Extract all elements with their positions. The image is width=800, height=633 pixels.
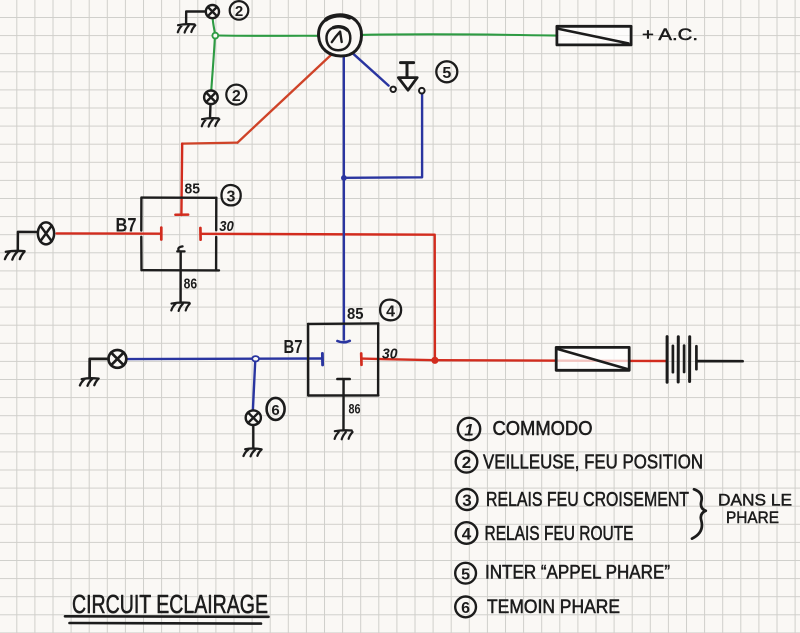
svg-text:VEILLEUSE, FEU POSITION: VEILLEUSE, FEU POSITION [483, 452, 703, 474]
wire blue commodo down to relay4 pin85 [343, 55, 346, 340]
title underline 2 [70, 622, 262, 625]
ground for lamp L4 [80, 378, 99, 386]
legend item 4 circled 4 [456, 522, 478, 544]
svg-text:CIRCUIT ECLAIRAGE: CIRCUIT ECLAIRAGE [72, 589, 268, 619]
wire green node to commodo [218, 34, 320, 36]
switch S5 right terminal [419, 88, 425, 94]
lamp veilleuse bottom (L2b) [204, 91, 218, 119]
wire blue switch branch [346, 94, 422, 178]
svg-text:B7: B7 [284, 337, 303, 357]
legend item 2 circled 2 [456, 451, 478, 473]
pin 85 bar relay3 [175, 213, 188, 216]
switch S5 stem [401, 63, 414, 78]
svg-text:85: 85 [347, 306, 364, 323]
wire red commodo diagonal [238, 55, 332, 143]
node blue junction dot [341, 175, 347, 181]
svg-text:PHARE: PHARE [726, 508, 779, 527]
svg-text:4: 4 [386, 303, 395, 320]
legend item 6 circled 6 [455, 597, 476, 618]
svg-text:6: 6 [461, 600, 470, 617]
svg-text:RELAIS FEU ROUTE: RELAIS FEU ROUTE [485, 523, 634, 545]
ground below relay K4 [335, 430, 353, 439]
wire green lamp2a to node [213, 19, 215, 34]
pin 30 tick relay3 [199, 228, 202, 240]
svg-text:4: 4 [462, 524, 472, 543]
commodo U1 numeral 1 [332, 32, 342, 42]
wire green node down to lamp2b [211, 39, 215, 90]
relay K4 box [308, 323, 378, 395]
svg-text:6: 6 [271, 402, 279, 419]
ground for lamp L3 [5, 251, 25, 260]
relay K3 box [141, 198, 219, 271]
wire red relay4 pin30 to battery [361, 359, 666, 361]
relay K3 armature contact [177, 246, 184, 251]
commodo U1 inner circle top emphasis [334, 27, 348, 30]
svg-text:5: 5 [442, 65, 451, 82]
battery BT1 [667, 337, 743, 383]
svg-text:2: 2 [462, 453, 471, 472]
svg-text:INTER “APPEL PHARE”: INTER “APPEL PHARE” [485, 563, 670, 584]
svg-text:85: 85 [185, 181, 201, 198]
svg-text:RELAIS FEU CROISEMENT: RELAIS FEU CROISEMENT [486, 489, 689, 511]
svg-text:30: 30 [219, 218, 234, 235]
wire red down into relay3 pin85 [180, 144, 183, 215]
lamp temoin (L6) [246, 410, 261, 448]
pin 30 tick relay4 [360, 354, 363, 365]
svg-text:3: 3 [462, 491, 471, 510]
ground for lamp L2b [202, 118, 220, 126]
svg-text:+ A.C.: + A.C. [642, 25, 698, 44]
wire green commodo to fuse AC [361, 34, 557, 35]
node red junction dot [431, 357, 438, 364]
svg-text:2: 2 [232, 88, 241, 105]
wire red lamp croisement to relay3 pin87 [57, 232, 161, 235]
label circled 6 [267, 398, 285, 420]
svg-text:B7: B7 [116, 215, 137, 236]
wire relay K4 pin86 lead [342, 379, 345, 430]
svg-text:3: 3 [227, 188, 236, 205]
svg-text:2: 2 [235, 3, 243, 20]
svg-text:1: 1 [464, 420, 473, 439]
pin 85 bar relay4 [337, 341, 349, 343]
legend item 1 circled 1 [458, 418, 480, 440]
wire relay K3 pin86 lead [179, 252, 181, 303]
ground below relay K3 [171, 303, 190, 311]
commodo U1 outer circle [319, 15, 362, 56]
label circled 4 [380, 300, 401, 321]
commodo U1 outer circle top emphasis [326, 15, 350, 19]
commodo U1 inner circle [326, 26, 350, 50]
svg-text:86: 86 [349, 400, 361, 416]
pin B7 tick relay4 [321, 353, 324, 365]
svg-text:TEMOIN PHARE: TEMOIN PHARE [487, 597, 620, 618]
wire blue lamp route to relay4 pin B7 [127, 357, 321, 360]
title underline 1 [65, 615, 269, 618]
lamp veilleuse top (L2a) [186, 5, 219, 24]
switch S5 arrow head [398, 78, 417, 91]
wire red horizontal to x182 [182, 143, 237, 144]
relay K4 armature bar [337, 378, 349, 381]
node blue open circle on B7 wire [252, 356, 259, 361]
node green junction circle [212, 33, 218, 39]
wire blue commodo diagonal to switch [353, 53, 389, 85]
label circled 2 bottom [226, 85, 246, 105]
label circled 5 [436, 61, 457, 82]
lamp route (left, L4) [90, 350, 127, 378]
svg-text:5: 5 [461, 566, 470, 583]
legend item 3 circled 3 [457, 489, 478, 510]
svg-text:COMMODO: COMMODO [493, 418, 593, 440]
fuse F1 (+A.C.) [557, 26, 631, 45]
legend brace [692, 489, 706, 538]
svg-text:DANS LE: DANS LE [718, 491, 792, 510]
wire red relay3 pin30 output [201, 233, 435, 236]
wire red vertical to junction [434, 235, 437, 360]
ground for lamp L2a [178, 24, 196, 32]
label circled 2 top [230, 1, 249, 20]
svg-text:86: 86 [184, 276, 198, 293]
pin 87 tick relay3 [160, 228, 163, 240]
switch S5 left terminal [391, 87, 396, 92]
lamp croisement (left, L3) [18, 222, 54, 250]
ground for lamp L6 [244, 448, 262, 456]
wire blue node down to temoin lamp [253, 362, 255, 410]
legend item 5 circled 5 [455, 563, 476, 584]
label circled 3 [221, 185, 240, 205]
svg-text:30: 30 [382, 345, 398, 362]
fuse F2 (battery feed) [556, 347, 629, 370]
